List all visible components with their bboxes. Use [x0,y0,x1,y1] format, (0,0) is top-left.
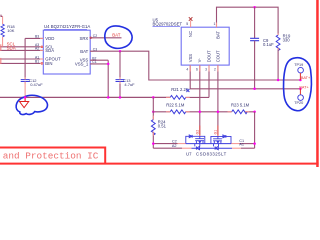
svg-text:BAT: BAT [112,33,121,38]
transistor Q FET2 of U7 [211,135,231,150]
svg-text:BQ29702DSET: BQ29702DSET [153,22,183,27]
svg-text:5: 5 [186,22,188,26]
svg-text:B1: B1 [35,60,39,64]
capacitor C9 [254,7,256,38]
svg-text:R22 5.1M: R22 5.1M [166,102,185,107]
wire VDD branch down to C12 [24,38,26,79]
svg-text:SDA: SDA [7,45,16,50]
resistor R18 [2,16,4,46]
junction dots [152,142,155,145]
svg-text:4: 4 [186,67,188,71]
svg-text:V-: V- [197,58,202,63]
svg-text:U7: U7 [186,152,192,157]
svg-text:SDA: SDA [45,48,54,53]
svg-text:B3: B3 [35,34,39,38]
resistor R23 [232,110,248,114]
junction dot R19/BAT+ wire [277,79,280,82]
resistor R24 [152,97,154,119]
gate stub FET1 [199,126,201,137]
title block box [0,148,105,164]
IC U4 box [43,30,90,74]
svg-text:A2: A2 [172,144,177,148]
svg-text:and Protection IC: and Protection IC [3,151,99,162]
svg-text:VSS: VSS [188,54,193,63]
junction dot top wire / C9 [253,6,256,9]
svg-text:BAT+: BAT+ [299,85,309,89]
svg-text:BAT: BAT [215,31,220,39]
U4 pin stubs salmon [40,38,94,64]
IC U5 box [181,27,229,65]
port stub left edge GPOUT/BIN [0,58,2,64]
U5 bottom pin wires: VSS [190,65,300,89]
svg-text:U4: U4 [44,24,50,29]
svg-text:4.7uF: 4.7uF [124,82,135,87]
svg-text:BQ27421YZFR-G1A: BQ27421YZFR-G1A [51,24,91,29]
rail junction dots [24,96,27,99]
svg-text:1: 1 [213,22,215,26]
svg-text:10K: 10K [7,28,14,33]
FET source wire row (A2/A1) [153,144,182,149]
resistor lead stubs salmon [153,33,278,135]
gate stub FET2 [217,126,219,137]
svg-text:A1: A1 [239,143,244,147]
svg-text:DOUT: DOUT [207,50,212,62]
svg-text:0.1uF: 0.1uF [263,42,274,47]
wires U4 VSS/VSS_1 [90,60,108,97]
U5 pin wire DOUT to rail [208,65,210,97]
U5 pin 1 BAT wire up and over to R19 [217,7,279,35]
svg-text:330: 330 [283,38,291,43]
junction dot BAT/C13 [119,50,122,53]
wire GPOUT [0,58,43,60]
svg-text:TP19: TP19 [294,63,303,67]
annotation circle around BAT [105,26,132,48]
test point TP20 [299,89,301,95]
wire BAT net: U4.BAT right, down, along y=80 to TP19 [90,51,300,80]
svg-text:BAT+: BAT+ [301,76,311,80]
wire top-left corner to R18 [1,15,3,17]
junction dot VSS merge [107,63,110,66]
no-connect X on pin 5 [189,17,193,21]
FET drain wire row (C2/C1) [153,143,177,145]
svg-text:A2: A2 [35,47,39,51]
junction dots on gate bias wire [152,111,155,114]
ground symbol [20,97,29,107]
gate bias wire R22/R23 row [153,111,254,113]
capacitor lead stubs salmon [25,36,255,84]
resistor R21 [170,96,186,100]
svg-text:BIN: BIN [45,61,52,66]
vertical BAT- right column [254,112,256,148]
svg-text:0.47uF: 0.47uF [30,82,43,87]
wire BIN [0,62,43,64]
annotation circle around test points [284,58,312,111]
svg-text:VSS_1: VSS_1 [75,62,89,67]
svg-text:0.51: 0.51 [158,124,167,129]
U5 pin 5 NC stub [190,20,192,27]
svg-text:VDD: VDD [45,36,54,41]
svg-text:A1: A1 [35,55,39,59]
svg-text:6: 6 [196,67,198,71]
wire SDA [0,49,43,51]
resistor R22 [170,110,186,114]
wire SRX to BAT label [90,37,121,39]
U5 pin wire COUT to gate G1 [217,65,219,135]
svg-text:G1: G1 [214,130,218,135]
svg-text:3: 3 [205,67,207,71]
resistor R19 [276,35,280,50]
pin junction red dots [41,46,43,48]
U5 pin 1 BAT stub [216,23,218,28]
sheet border right [316,0,319,167]
pin stubs salmon overlay [190,65,218,71]
blue x mark [186,89,189,92]
wire VDD [25,37,43,39]
transistor Q FET1 of U7 [186,135,205,150]
svg-text:2: 2 [214,67,216,71]
svg-text:CSD83325LT: CSD83325LT [196,152,227,157]
wire SCL [0,46,43,48]
svg-text:COUT: COUT [215,50,220,62]
port stub left edge SCL/SDA [0,44,2,51]
svg-text:C2: C2 [172,139,177,143]
sheet border bottom [0,163,319,165]
svg-text:BAT: BAT [80,49,88,54]
capacitor C12 [21,80,30,82]
junction dots wire2 [253,88,256,91]
svg-text:NC: NC [188,31,193,37]
U5 pin wire V- to gate G2 [199,65,201,135]
annotation circle around ground [16,95,47,114]
svg-text:TP20: TP20 [294,101,303,105]
capacitor C13 [119,51,121,79]
svg-text:R23 5.1M: R23 5.1M [231,102,250,107]
ground rail [0,96,170,98]
svg-text:G2: G2 [195,130,199,135]
svg-text:SRX: SRX [79,36,88,41]
